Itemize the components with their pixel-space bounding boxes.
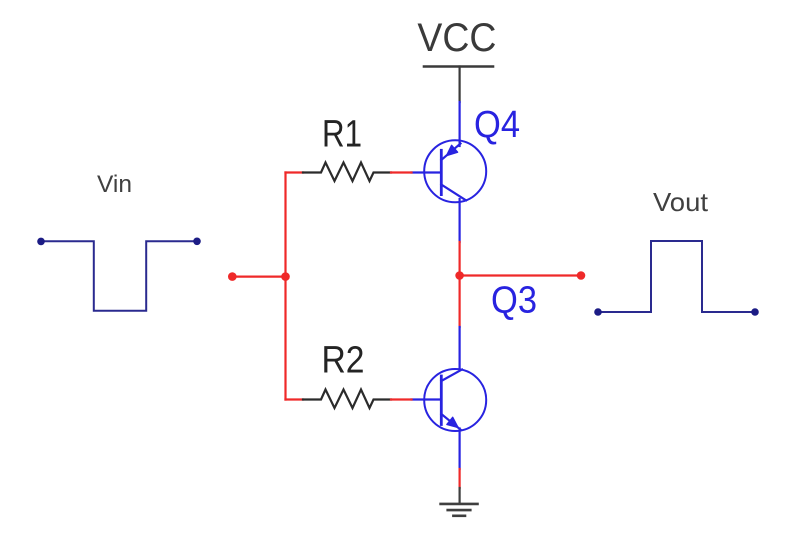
node output junction <box>455 271 464 280</box>
svg-text:R1: R1 <box>322 113 362 155</box>
wire emitter to ground (red segment) <box>459 469 461 488</box>
transistor Q4 (PNP) <box>412 140 487 202</box>
wire VCC to Q4 emitter (black segment) <box>459 67 461 103</box>
wire input junction to R1 (red) <box>286 171 304 173</box>
node input junction <box>281 272 290 281</box>
node input terminal <box>228 272 237 281</box>
wire input bus vertical (red) <box>284 173 286 400</box>
transistor Q3 (NPN) <box>412 369 487 431</box>
ground <box>441 504 478 516</box>
wire to ground (black segment) <box>459 488 461 503</box>
node Vin left endpoint <box>37 238 45 246</box>
wire VCC to Q4 emitter (blue segment) <box>459 102 461 146</box>
wire R2 to Q3 base (red) <box>391 398 412 400</box>
node Vout right endpoint <box>751 308 759 316</box>
resistor R2 <box>303 390 391 409</box>
node output terminal <box>577 271 586 280</box>
wire output to terminal (red) <box>460 274 581 276</box>
power rail VCC bar <box>424 65 493 68</box>
wire mid red segment through output node <box>459 242 461 327</box>
wire input junction to R2 (red) <box>286 398 304 400</box>
svg-text:Q3: Q3 <box>491 280 537 322</box>
wire node to Q3 collector (blue segment) <box>459 327 461 370</box>
wire input terminal to junction (red) <box>232 276 285 278</box>
resistor R1 <box>303 163 391 182</box>
waveform Vin <box>40 241 197 310</box>
wire R1 to Q4 base (red) <box>391 171 412 173</box>
svg-text:VCC: VCC <box>417 16 496 60</box>
svg-text:Vout: Vout <box>653 187 709 217</box>
node Vin right endpoint <box>193 238 201 246</box>
node Vout left endpoint <box>594 308 602 316</box>
waveform Vout <box>598 241 755 312</box>
wire Q3 emitter down (blue segment) <box>459 429 461 470</box>
svg-text:R2: R2 <box>322 340 365 382</box>
svg-text:Q4: Q4 <box>474 104 520 146</box>
svg-text:Vin: Vin <box>97 171 132 198</box>
wire Q4 collector down (blue segment) <box>459 199 461 242</box>
